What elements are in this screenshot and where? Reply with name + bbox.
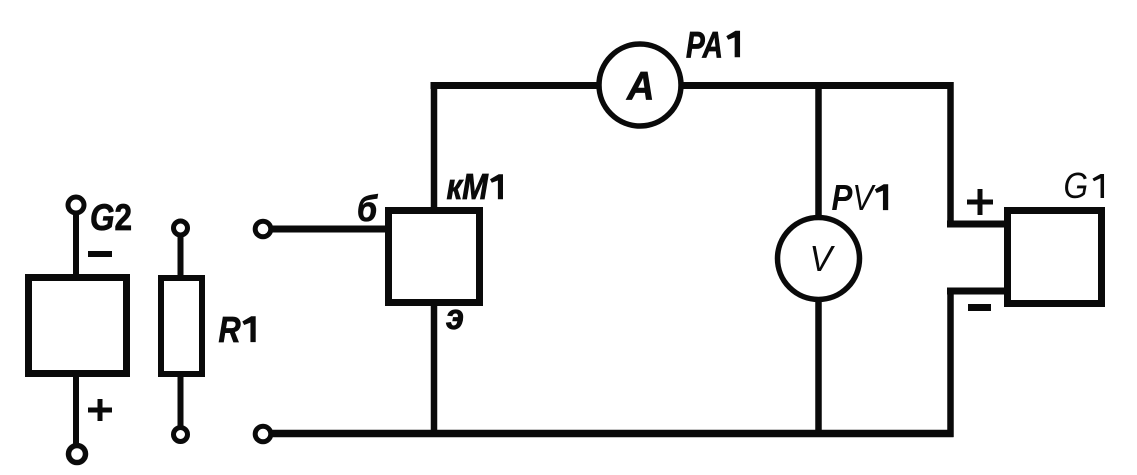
battery G2 box xyxy=(29,278,127,374)
polarity label minus (G2) xyxy=(88,251,112,257)
polarity label plus (G2) xyxy=(88,399,112,421)
label PV1 digit 1 xyxy=(875,184,888,210)
terminal G2 bottom xyxy=(69,446,86,463)
svg-text:кМ: кМ xyxy=(447,168,489,208)
wire G2 bottom lead xyxy=(73,373,79,447)
terminal emitter input xyxy=(255,426,271,442)
wire voltmeter lower lead xyxy=(815,297,822,437)
wire collector lead up xyxy=(431,82,438,211)
label кМ1 digit 1 xyxy=(490,174,503,199)
wire top bus left segment xyxy=(431,82,598,89)
label PA1 digit 1 xyxy=(726,31,740,57)
svg-text:G2: G2 xyxy=(90,198,132,239)
wire G1 plus stub xyxy=(947,221,1008,228)
terminal G2 top xyxy=(68,197,84,213)
generator G1 box xyxy=(1008,211,1102,304)
transistor M1 box xyxy=(389,211,480,303)
wire R1 bottom lead xyxy=(178,373,184,428)
svg-text:б: б xyxy=(357,189,378,229)
terminal R1 bottom xyxy=(174,428,188,442)
svg-text:э: э xyxy=(446,297,464,337)
label G1 digit 1 xyxy=(1093,174,1105,198)
terminal R1 top xyxy=(174,221,188,235)
svg-text:V: V xyxy=(810,239,836,279)
voltmeter PV1 xyxy=(778,218,860,300)
svg-text:A: A xyxy=(626,65,654,109)
ammeter PA1 xyxy=(599,44,681,126)
wire base input to M1 xyxy=(271,226,390,233)
svg-text:R: R xyxy=(219,311,241,351)
terminal base input xyxy=(255,221,271,237)
label R1 digit 1 xyxy=(242,316,255,342)
wire top bus right segment xyxy=(683,82,954,89)
svg-text:PA: PA xyxy=(686,24,723,66)
wire bottom bus xyxy=(270,430,954,438)
resistor R1 xyxy=(161,278,202,374)
polarity label plus (G1) xyxy=(967,189,993,215)
wire right branch lower vertical xyxy=(947,288,954,438)
polarity label minus (G1) xyxy=(968,304,991,311)
wire R1 top lead xyxy=(178,234,184,279)
wire voltmeter upper lead xyxy=(815,85,822,220)
wire emitter lead down xyxy=(431,302,438,437)
wire G2 top lead xyxy=(73,213,79,277)
svg-text:G: G xyxy=(1064,166,1089,206)
wire right branch upper vertical xyxy=(947,82,954,228)
wire G1 minus stub xyxy=(947,288,1008,295)
svg-text:PV: PV xyxy=(832,178,877,219)
